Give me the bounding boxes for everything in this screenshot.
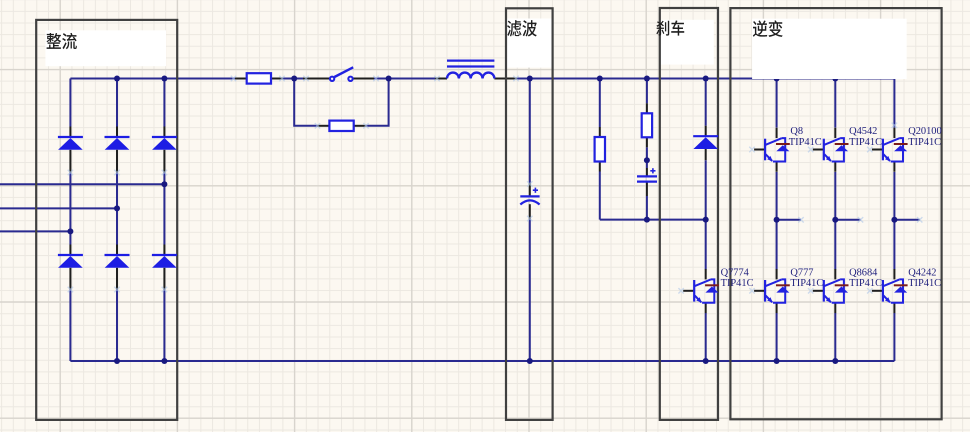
wire: bottom DC bus xyxy=(70,360,894,362)
junction node: inverter leg2 top xyxy=(832,76,838,82)
svg-text:TIP41C: TIP41C xyxy=(908,278,941,289)
capacitor C2 (snubber electrolytic) xyxy=(637,168,657,181)
pin marker: switch right xyxy=(373,76,378,81)
switch SW1 xyxy=(330,67,353,81)
wire: black leads brake RC xyxy=(646,103,648,196)
wire: brake chopper column xyxy=(705,79,707,362)
junction node: inverter mid leg1 xyxy=(774,217,780,223)
junction node: brake link at chopper xyxy=(703,217,709,223)
svg-text:Q4242: Q4242 xyxy=(908,268,936,279)
wire: brake bottom link xyxy=(600,219,706,221)
pin marker: R2 right xyxy=(363,123,368,128)
pin marker: lower diode col1 xyxy=(68,287,73,292)
svg-text:Q8: Q8 xyxy=(790,126,803,137)
junction node: RC mid xyxy=(644,157,650,163)
diode D5 (rectifier bottom col2) xyxy=(105,245,130,280)
box: rectifier group frame xyxy=(36,20,177,420)
label plate: brake xyxy=(660,20,713,65)
box: inverter group frame xyxy=(730,8,941,419)
pin marker: diode col1 lower xyxy=(68,170,73,175)
label: 滤波 xyxy=(507,20,521,36)
pin marker: C1 top xyxy=(527,181,532,186)
label: 整流 xyxy=(46,33,61,49)
transistor Q8684 (inverter leg2 low) xyxy=(813,269,849,313)
pin marker: switch left xyxy=(303,76,308,81)
label plate: inverter xyxy=(752,19,907,79)
svg-text:TIP41C: TIP41C xyxy=(849,137,882,148)
transistor Q777 (inverter leg1 low) xyxy=(754,269,790,313)
wire: rectifier column 1 vertical xyxy=(69,79,71,362)
wire: inverter leg 1 vertical xyxy=(776,79,778,362)
pin marker: R1 left xyxy=(231,76,236,81)
junction node: phase B tap xyxy=(114,205,120,211)
svg-text:TIP41C: TIP41C xyxy=(721,278,754,289)
resistor R4 (snubber resistor, vertical) xyxy=(642,113,652,137)
junction node: bottom bus leg2 xyxy=(832,358,838,364)
pin marker: R2 left xyxy=(315,123,320,128)
wire: inverter leg 3 vertical xyxy=(893,79,895,362)
wire: brake resistor column xyxy=(599,79,601,220)
pin marker: lower diode col2 xyxy=(114,287,119,292)
wire: rectifier column 3 vertical xyxy=(163,79,165,362)
resistor R1 (charge resistor, top bus) xyxy=(247,73,271,83)
inductor L1 (DC link choke) xyxy=(447,61,494,79)
pin marker: leg3 collector xyxy=(892,123,897,128)
pin marker: Q8 base xyxy=(749,147,754,152)
wire: brake RC column xyxy=(646,79,648,220)
junction node: inverter mid leg3 xyxy=(891,217,897,223)
pin marker: Q7774 base xyxy=(678,288,683,293)
label: 刹车 xyxy=(656,21,669,36)
junction node: bottom bus brake xyxy=(703,358,709,364)
diode D6 (rectifier bottom col3) xyxy=(152,245,177,280)
pin marker: Q4242 base xyxy=(867,288,872,293)
junction node: bottom bus filter xyxy=(527,358,533,364)
svg-text:Q7774: Q7774 xyxy=(721,268,750,279)
wire: phase output stub V xyxy=(835,219,860,221)
transistor Q4242 (inverter leg3 low) xyxy=(872,269,908,313)
wire: switch bypass loop xyxy=(294,79,388,126)
wire: inverter leg 2 vertical xyxy=(834,79,836,362)
diode D7 (brake freewheel diode) xyxy=(693,126,718,161)
diode D1 (rectifier top col1) xyxy=(58,127,83,162)
diode D2 (rectifier top col2) xyxy=(105,127,130,162)
diode D3 (rectifier top col3) xyxy=(152,127,177,162)
svg-text:Q777: Q777 xyxy=(790,268,813,279)
junction node: bottom bus col2 xyxy=(114,358,120,364)
wire: black leads rectifier diode extensions xyxy=(70,161,164,290)
svg-text:TIP41C: TIP41C xyxy=(789,137,822,148)
svg-text:TIP41C: TIP41C xyxy=(908,137,941,148)
wire: phase output stub U xyxy=(777,219,801,221)
capacitor C1 (filter electrolytic) xyxy=(520,188,539,205)
junction node: inverter mid leg2 xyxy=(832,217,838,223)
wire: top DC bus xyxy=(70,78,894,80)
junction node: top bus at rectifier col3 xyxy=(161,76,167,82)
pin marker: Q777 base xyxy=(749,288,754,293)
junction node: bottom bus col3 xyxy=(161,358,167,364)
pin marker: inductor left xyxy=(434,76,439,81)
wire: phase input C xyxy=(0,230,70,232)
pin marker: Q20100 base xyxy=(867,147,872,152)
junction node: inverter leg1 top xyxy=(774,76,780,82)
junction node: top bus at rectifier col2 xyxy=(114,76,120,82)
transistor Q4542 (inverter leg2 high) xyxy=(813,128,849,172)
wire: phase input A xyxy=(0,183,164,185)
label plate: filter xyxy=(507,19,552,68)
box: brake group frame xyxy=(660,8,718,420)
transistor Q8 (inverter leg1 high) xyxy=(754,128,790,172)
wire: black leads of bypass resistor xyxy=(318,125,366,127)
wire: phase output stub W xyxy=(894,219,919,221)
pin marker: R1 right xyxy=(279,76,284,81)
svg-text:Q8684: Q8684 xyxy=(849,268,878,279)
pin marker: Q8684 base xyxy=(808,288,813,293)
junction node: phase A tap xyxy=(161,181,167,187)
junction node: filter cap top xyxy=(527,76,533,82)
label plate: rectifier xyxy=(45,30,166,66)
transistor Q7774 (brake chopper) xyxy=(683,269,719,313)
junction node: brake RC top xyxy=(644,76,650,82)
box: filter group frame xyxy=(506,8,553,420)
pin marker: stub W end xyxy=(917,217,922,222)
wire: filter capacitor column xyxy=(529,79,531,362)
junction node: brake link at RC xyxy=(644,217,650,223)
pin marker: stub U end xyxy=(798,217,803,222)
junction node: brake resistor top xyxy=(597,76,603,82)
transistor Q20100 (inverter leg3 high) xyxy=(872,128,908,172)
junction node: bottom bus leg1 xyxy=(774,358,780,364)
svg-text:TIP41C: TIP41C xyxy=(790,278,823,289)
junction node: bypass left xyxy=(291,76,297,82)
pin marker: Q4542 base xyxy=(808,147,813,152)
junction node: phase C tap xyxy=(67,228,73,234)
svg-text:TIP41C: TIP41C xyxy=(849,278,882,289)
pin marker: inductor right xyxy=(513,76,518,81)
wire: black leads filter capacitor xyxy=(529,183,531,219)
wire: rectifier column 2 vertical xyxy=(116,79,118,362)
junction node: bypass right xyxy=(386,76,392,82)
pin marker: C1 bottom xyxy=(527,216,532,221)
diode D4 (rectifier bottom col1) xyxy=(58,245,83,280)
resistor R3 (brake resistor, vertical) xyxy=(595,137,605,162)
wire: phase input B xyxy=(0,207,117,209)
wire: black leads brake resistor xyxy=(599,127,601,172)
pin marker: stub V end xyxy=(858,217,863,222)
svg-text:Q20100: Q20100 xyxy=(908,126,941,137)
pin marker: lower diode col3 xyxy=(162,287,167,292)
pin marker: diode col3 lower xyxy=(162,170,167,175)
svg-text:Q4542: Q4542 xyxy=(849,126,877,137)
label: 逆变 xyxy=(753,20,767,36)
pin marker: diode col2 lower xyxy=(114,170,119,175)
wire: black component leads on top bus xyxy=(235,78,517,80)
resistor R2 (bypass resistor) xyxy=(329,121,353,131)
junction node: brake diode top xyxy=(703,76,709,82)
